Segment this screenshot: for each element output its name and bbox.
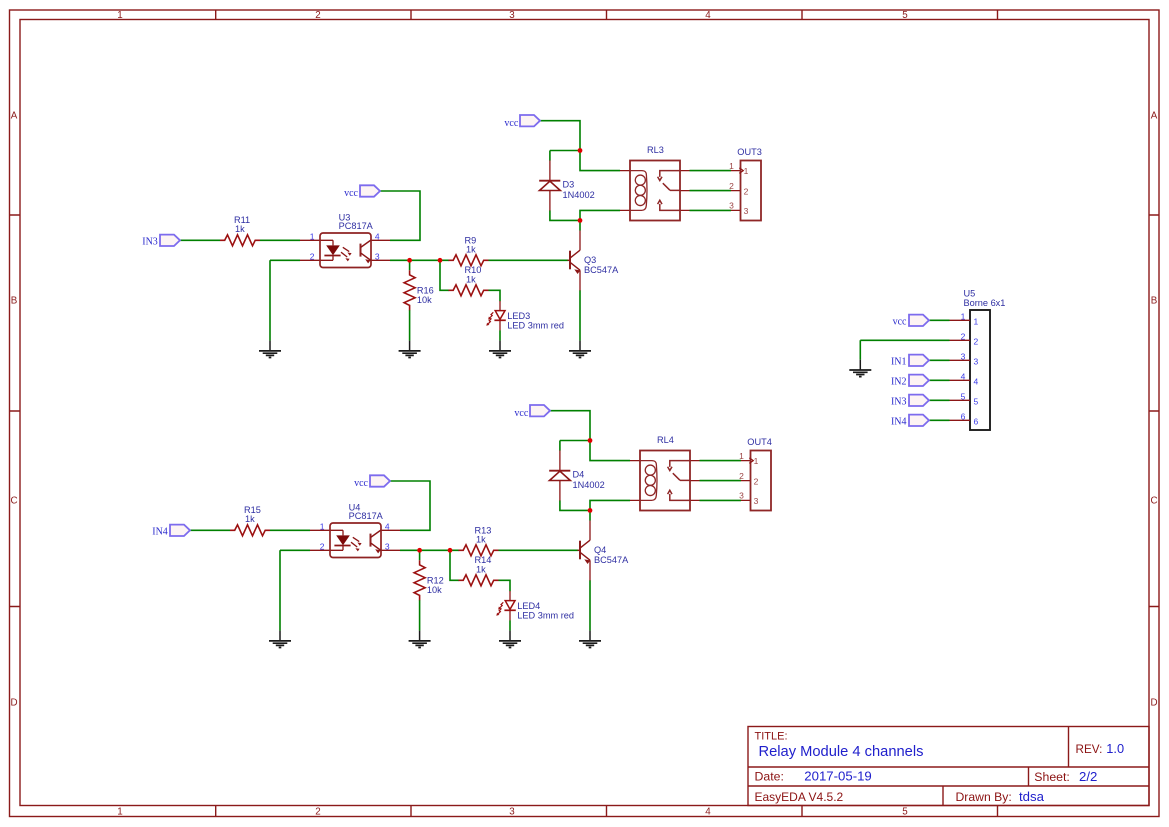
svg-text:1k: 1k — [476, 564, 486, 574]
svg-text:1: 1 — [729, 161, 734, 171]
svg-text:vcc: vcc — [344, 188, 358, 199]
svg-text:10k: 10k — [427, 585, 442, 595]
svg-text:1: 1 — [310, 232, 315, 242]
svg-text:R16: R16 — [417, 286, 434, 296]
svg-text:2: 2 — [320, 542, 325, 552]
svg-text:RL3: RL3 — [647, 145, 664, 155]
svg-text:D: D — [10, 698, 17, 709]
svg-text:1k: 1k — [245, 514, 255, 524]
svg-text:LED 3mm red: LED 3mm red — [517, 610, 574, 620]
svg-text:2: 2 — [315, 806, 320, 817]
svg-text:1: 1 — [117, 10, 122, 21]
svg-text:D3: D3 — [563, 179, 575, 189]
svg-text:2: 2 — [729, 181, 734, 191]
svg-text:Q3: Q3 — [584, 255, 596, 265]
svg-text:4: 4 — [961, 371, 966, 381]
svg-text:1N4002: 1N4002 — [563, 190, 595, 200]
svg-text:vcc: vcc — [893, 317, 907, 328]
svg-text:IN4: IN4 — [152, 526, 168, 537]
svg-text:Relay Module 4 channels: Relay Module 4 channels — [759, 744, 924, 760]
svg-text:EasyEDA V4.5.2: EasyEDA V4.5.2 — [755, 790, 844, 804]
svg-text:1: 1 — [117, 806, 122, 817]
svg-text:B: B — [1151, 296, 1158, 307]
svg-text:B: B — [11, 296, 18, 307]
svg-text:2: 2 — [754, 476, 759, 486]
svg-text:1N4002: 1N4002 — [573, 480, 605, 490]
svg-text:5: 5 — [902, 10, 908, 21]
svg-text:5: 5 — [902, 806, 908, 817]
svg-text:3: 3 — [739, 491, 744, 501]
svg-text:3: 3 — [509, 10, 515, 21]
svg-text:2: 2 — [974, 336, 979, 346]
svg-text:TITLE:: TITLE: — [755, 730, 788, 742]
svg-text:1: 1 — [754, 456, 759, 466]
svg-text:4: 4 — [974, 376, 979, 386]
svg-text:4: 4 — [705, 806, 711, 817]
svg-text:6: 6 — [974, 416, 979, 426]
svg-text:2017-05-19: 2017-05-19 — [804, 769, 871, 784]
svg-text:PC817A: PC817A — [349, 511, 384, 521]
svg-text:A: A — [1151, 111, 1158, 122]
svg-text:1k: 1k — [466, 274, 476, 284]
svg-text:1: 1 — [739, 451, 744, 461]
svg-text:Q4: Q4 — [594, 545, 606, 555]
svg-text:4: 4 — [385, 522, 390, 532]
svg-text:6: 6 — [961, 411, 966, 421]
svg-text:1k: 1k — [235, 224, 245, 234]
svg-text:vcc: vcc — [504, 118, 518, 129]
svg-text:5: 5 — [974, 396, 979, 406]
svg-text:5: 5 — [961, 391, 966, 401]
svg-text:3: 3 — [385, 542, 390, 552]
svg-text:3: 3 — [744, 206, 749, 216]
svg-text:LED 3mm red: LED 3mm red — [507, 320, 564, 330]
svg-text:2: 2 — [744, 186, 749, 196]
svg-text:3: 3 — [375, 252, 380, 262]
svg-text:2/2: 2/2 — [1079, 769, 1097, 784]
svg-text:IN3: IN3 — [891, 397, 907, 408]
svg-text:3: 3 — [974, 356, 979, 366]
svg-text:D: D — [1150, 698, 1157, 709]
svg-text:IN1: IN1 — [891, 357, 907, 368]
svg-text:4: 4 — [375, 232, 380, 242]
svg-text:R12: R12 — [427, 576, 444, 586]
svg-text:4: 4 — [705, 10, 711, 21]
svg-text:2: 2 — [310, 252, 315, 262]
svg-text:1: 1 — [320, 522, 325, 532]
svg-text:3: 3 — [729, 201, 734, 211]
svg-text:IN2: IN2 — [891, 377, 907, 388]
svg-text:Date:: Date: — [755, 770, 784, 784]
svg-text:Sheet:: Sheet: — [1034, 770, 1070, 784]
svg-text:Borne 6x1: Borne 6x1 — [964, 298, 1006, 308]
svg-text:BC547A: BC547A — [594, 555, 629, 565]
svg-text:D4: D4 — [573, 469, 585, 479]
svg-text:vcc: vcc — [354, 478, 368, 489]
svg-text:10k: 10k — [417, 295, 432, 305]
svg-text:3: 3 — [509, 806, 515, 817]
svg-text:REV:: REV: — [1076, 743, 1103, 756]
svg-text:3: 3 — [754, 496, 759, 506]
svg-text:2: 2 — [315, 10, 320, 21]
svg-text:2: 2 — [739, 471, 744, 481]
svg-text:1.0: 1.0 — [1106, 741, 1124, 756]
svg-text:1k: 1k — [466, 244, 476, 254]
svg-text:IN3: IN3 — [142, 236, 158, 247]
svg-text:C: C — [1150, 496, 1157, 507]
svg-text:1: 1 — [744, 166, 749, 176]
svg-text:OUT3: OUT3 — [737, 147, 762, 157]
svg-text:BC547A: BC547A — [584, 265, 619, 275]
svg-text:Drawn By:: Drawn By: — [956, 790, 1012, 804]
svg-text:1: 1 — [974, 316, 979, 326]
svg-text:A: A — [11, 111, 18, 122]
svg-text:OUT4: OUT4 — [747, 437, 772, 447]
svg-text:vcc: vcc — [514, 408, 528, 419]
svg-text:C: C — [10, 496, 17, 507]
svg-text:PC817A: PC817A — [339, 221, 374, 231]
svg-text:1k: 1k — [476, 534, 486, 544]
svg-text:IN4: IN4 — [891, 417, 907, 428]
svg-text:RL4: RL4 — [657, 435, 674, 445]
svg-text:1: 1 — [961, 311, 966, 321]
svg-text:tdsa: tdsa — [1019, 789, 1045, 804]
svg-text:3: 3 — [961, 351, 966, 361]
svg-text:2: 2 — [961, 331, 966, 341]
